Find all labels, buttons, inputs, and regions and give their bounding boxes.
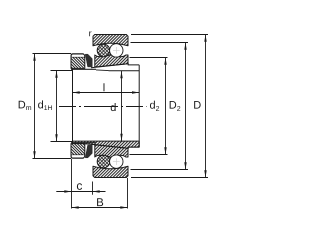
extension line c right: [92, 182, 94, 195]
lock washer tab, bottom: [85, 145, 92, 158]
arrowhead d2, top: [164, 58, 166, 65]
svg-text:c: c: [76, 179, 82, 193]
dimension line D2: [185, 43, 187, 170]
dimension line l: [73, 92, 140, 94]
ball, sectioned, bottom left: [97, 155, 110, 168]
adapter sleeve taper and right step outline, bottom: [91, 144, 139, 148]
locknut face band, top: [71, 54, 84, 57]
arrowhead D2, bottom: [184, 162, 186, 169]
arrowhead d1H, top: [55, 71, 57, 78]
locknut section, top: [71, 54, 85, 69]
arrowhead D, bottom: [204, 170, 206, 177]
outer ring section, top: [93, 35, 128, 46]
svg-text:d: d: [110, 102, 116, 114]
ball, bottom right: [110, 155, 123, 168]
arrowhead d, bottom: [120, 134, 122, 141]
sleeve slit edge line, top: [96, 69, 109, 72]
arrowhead D, top: [204, 35, 206, 42]
arrowhead d2, bottom: [164, 147, 166, 154]
dimension line Dm: [34, 54, 36, 159]
sleeve right end face: [138, 65, 140, 147]
svg-text:l: l: [103, 82, 105, 94]
extension line D, bottom: [131, 177, 208, 179]
extension line B right: [127, 178, 129, 209]
arrowhead c right: [93, 190, 100, 192]
ball centre mark horizontal, top: [113, 49, 120, 51]
lock washer tab, top: [85, 54, 92, 67]
extension line D2, top: [131, 42, 189, 44]
extension line d1H, top: [51, 70, 73, 72]
extension line d2, top: [130, 57, 168, 59]
arrowhead B right: [120, 206, 127, 208]
ball, top right: [110, 44, 123, 57]
lock washer plate edge, bottom: [71, 142, 96, 144]
dimension line D: [205, 35, 207, 178]
ball centre mark vertical, top: [115, 47, 117, 54]
inner ring section, top: [95, 54, 128, 67]
adapter sleeve taper and right step outline, top: [91, 64, 139, 68]
arrowhead Dm, top: [33, 54, 35, 61]
arrowhead l right: [132, 91, 139, 93]
arrowhead c left: [64, 190, 71, 192]
locknut section, bottom: [71, 144, 85, 159]
dimension line B: [72, 207, 128, 209]
centerline (axis): [59, 106, 147, 108]
extension line D, top: [131, 34, 208, 36]
extension line c/B left: [71, 159, 73, 209]
arrowhead d, top: [120, 71, 122, 78]
adapter sleeve section, bottom: [73, 141, 140, 148]
extension line Dm, top: [33, 53, 72, 55]
dimension line d1H: [56, 71, 58, 142]
sleeve bore line, top: [109, 70, 140, 72]
arrowhead Dm, bottom: [33, 151, 35, 158]
ball centre mark vertical, bottom: [115, 158, 117, 165]
extension line Dm, bottom: [33, 158, 72, 160]
dimension line d2: [165, 58, 167, 155]
extension line d1H, bottom: [51, 141, 73, 143]
inner ring section, bottom: [95, 145, 128, 158]
locknut face band, bottom: [71, 155, 84, 158]
ball centre mark horizontal, bottom: [113, 161, 120, 163]
arrowhead d1H, bottom: [55, 134, 57, 141]
extension line D2, bottom: [131, 169, 189, 171]
sleeve left end face: [72, 69, 74, 144]
svg-text:D: D: [193, 100, 201, 112]
lock washer plate edge, top: [71, 68, 96, 70]
svg-text:r: r: [89, 28, 92, 38]
arrowhead l left: [73, 91, 80, 93]
dimension line c: [56, 191, 105, 193]
ball, sectioned, top left: [97, 44, 110, 57]
arrowhead B left: [72, 206, 79, 208]
arrowhead D2, top: [184, 43, 186, 50]
dimension line d: [121, 71, 123, 141]
svg-text:B: B: [96, 197, 104, 209]
extension line d2, bottom: [130, 154, 168, 156]
outer ring section, bottom: [93, 166, 128, 177]
